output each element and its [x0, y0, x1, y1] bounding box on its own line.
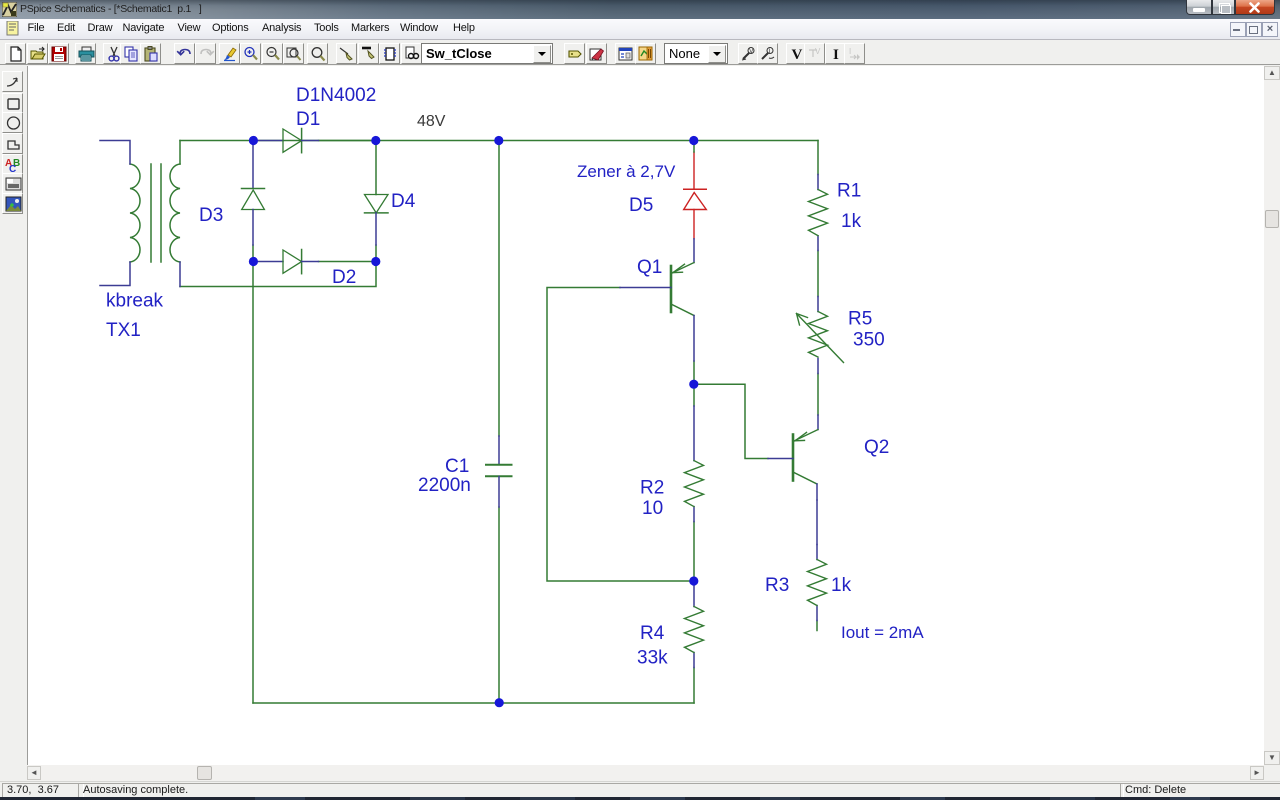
transistor Q2 — [768, 430, 818, 501]
diode D1 — [254, 129, 319, 153]
junction Q1 collector / R2 / Q2 base node — [689, 380, 698, 389]
TX1 pin bottom-left — [100, 262, 130, 286]
MDI child buttons — [1230, 22, 1246, 37]
wire TX secondary bottom to bridge — [180, 262, 376, 287]
svg-text:I: I — [849, 47, 851, 56]
svg-text:V: V — [815, 47, 821, 56]
wire D2 to D4 bottom segment — [319, 261, 377, 263]
junction 48V rail / D5 cathode — [689, 136, 698, 145]
junction R2-R4 / Q1 base loop node — [689, 576, 698, 585]
wire Q1 collector to node — [693, 361, 695, 384]
wire D3 bottom lower half — [252, 245, 254, 262]
junction bridge bottom-right / D2-D4 — [371, 257, 380, 266]
svg-text:V: V — [792, 47, 803, 63]
wire D4 bottom lower half — [375, 245, 377, 262]
diode D2 — [254, 250, 319, 274]
TX1 pin top-left — [100, 141, 130, 165]
capacitor C1 — [486, 436, 512, 507]
resistor R2 — [685, 461, 704, 522]
junction bridge bottom-left / D3 anode — [249, 257, 258, 266]
svg-text:V: V — [749, 49, 753, 55]
transistor Q1 — [620, 263, 694, 362]
wire D5 anode to Q1 emitter — [693, 239, 695, 263]
junction bridge top-left / D3 cathode — [249, 136, 258, 145]
wire R5 to Q2 emitter — [817, 374, 819, 416]
wire left drop from bridge to bottom rail — [252, 262, 254, 704]
resistor R1 — [809, 175, 828, 251]
wire Q2 collector to R3 (pins) — [816, 500, 818, 545]
variable resistor R5 — [797, 297, 844, 374]
junction 48V rail / C1 top — [494, 136, 503, 145]
wire Q1 base loop — [547, 288, 694, 582]
pin R2 top — [693, 406, 695, 461]
TX1 pin bottom-right — [179, 262, 181, 287]
wire C1 branch lower — [498, 507, 500, 703]
wire R3 bottom stub — [816, 621, 818, 631]
resistor R3 — [808, 545, 827, 621]
wire R1 to R5 — [817, 251, 819, 297]
wire rail corner to R1 — [817, 141, 819, 175]
wire top rail 48V — [180, 140, 818, 142]
diode D3 — [242, 141, 265, 246]
transformer TX1 — [130, 141, 180, 263]
wire D5 top stub — [693, 141, 695, 153]
pin Q2 emitter — [817, 415, 819, 430]
wire R2 top — [693, 384, 695, 406]
wire D1 to D4 segment — [319, 140, 377, 142]
wire R4 bottom to rail — [693, 668, 695, 704]
wire D4 top pin — [375, 141, 377, 195]
junction bridge top-right / D1-D4 — [371, 136, 380, 145]
wire bottom rail — [253, 702, 694, 704]
wire node to Q2 base — [694, 384, 768, 458]
resistor R4 — [685, 581, 704, 668]
junction bottom rail / C1 bottom — [495, 698, 504, 707]
svg-text:I: I — [769, 49, 771, 55]
wire C1 branch upper — [498, 141, 500, 437]
svg-text:I: I — [833, 47, 839, 63]
zener diode D5 — [684, 152, 707, 239]
wire R2 bottom to node — [693, 522, 695, 581]
diode D4 — [365, 195, 389, 246]
